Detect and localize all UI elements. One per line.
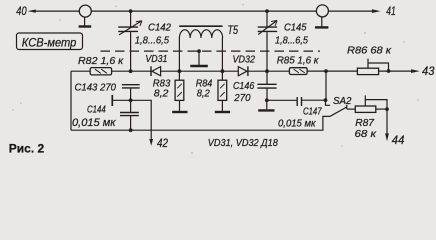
wire R84 bottom xyxy=(221,100,223,111)
shield dashed line xyxy=(101,50,321,52)
capacitor C142 (variable) xyxy=(118,21,142,35)
node 42 arrow xyxy=(149,139,153,146)
resistor R85 xyxy=(289,68,307,75)
svg-text:Рис. 2: Рис. 2 xyxy=(9,141,45,155)
diode VD31 xyxy=(151,66,161,76)
wire between T5 leads row xyxy=(179,70,222,72)
wire T5 right lead xyxy=(221,38,223,80)
svg-text:SA2: SA2 xyxy=(333,96,352,107)
potentiometer R86 xyxy=(357,59,388,75)
ground (R83) xyxy=(172,111,187,113)
contact bar (C144 tap) xyxy=(111,95,113,106)
junction C146/C147 xyxy=(265,98,269,102)
wire C146 node to C147 xyxy=(267,99,297,101)
ground (C146) xyxy=(266,100,268,109)
label box КСВ-метр xyxy=(17,33,83,50)
node 41 arrow xyxy=(372,9,381,13)
svg-text:44: 44 xyxy=(392,134,405,147)
wire junction to VD31 xyxy=(131,70,151,72)
wire VD31 to T5 left xyxy=(161,70,180,72)
wire C142 bottom xyxy=(130,31,132,71)
wire SA2 to R87 xyxy=(347,108,356,110)
svg-text:68 к: 68 к xyxy=(355,129,378,140)
wire C145 bottom xyxy=(266,31,268,84)
junction T5 left / R83 xyxy=(178,69,182,73)
wire C146 bottom xyxy=(266,88,268,100)
capacitor C143 xyxy=(122,85,140,88)
svg-text:42: 42 xyxy=(157,137,168,150)
junction C144 rail xyxy=(129,128,133,132)
wire left rail xyxy=(70,71,72,130)
capacitor C145 (variable) xyxy=(258,21,277,35)
svg-text:8,2: 8,2 xyxy=(197,89,210,100)
wire SA2 upper contact arm xyxy=(326,100,331,105)
node 43 arrow xyxy=(411,69,420,73)
capacitor C147 xyxy=(297,97,301,106)
resistor R83 xyxy=(175,80,184,100)
svg-text:C147: C147 xyxy=(303,107,322,118)
wire tap to 42 corner xyxy=(112,100,151,139)
svg-text:C143 270: C143 270 xyxy=(75,82,117,93)
ground (right connector) xyxy=(321,17,323,27)
svg-text:R87: R87 xyxy=(355,118,375,129)
wire C142 top xyxy=(130,11,132,27)
ground (shield) xyxy=(198,51,200,65)
junction top right xyxy=(265,9,269,13)
wire junction to R85 xyxy=(267,70,289,72)
wire R87 to arrow 44 xyxy=(386,109,388,135)
svg-text:T5: T5 xyxy=(228,24,239,37)
wire SA2 node link xyxy=(325,71,327,100)
connector right circle xyxy=(316,5,328,17)
wire R82 to junction xyxy=(112,70,131,72)
junction R86 wiper xyxy=(387,69,391,73)
svg-text:270: 270 xyxy=(233,93,250,104)
connector left circle xyxy=(79,5,91,17)
wire R86 to arrow 43 xyxy=(379,70,413,72)
svg-text:0,015 мк: 0,015 мк xyxy=(72,117,116,129)
svg-text:C144: C144 xyxy=(87,104,106,115)
svg-text:40: 40 xyxy=(16,5,27,18)
junction T5 right / R84 xyxy=(221,69,225,73)
ground (left connector) xyxy=(84,17,86,26)
junction R87 wiper xyxy=(385,107,389,111)
svg-text:41: 41 xyxy=(386,5,396,18)
wire bottom rail xyxy=(71,116,330,130)
svg-text:C146: C146 xyxy=(233,81,254,92)
junction C142/R82/VD31 xyxy=(129,69,133,73)
wire T5 right to VD32 xyxy=(222,70,238,72)
junction SA2 upper contact xyxy=(324,98,328,102)
svg-text:43: 43 xyxy=(422,65,435,78)
resistor R82 xyxy=(90,68,111,75)
svg-text:VD31, VD32 Д18: VD31, VD32 Д18 xyxy=(208,138,278,149)
capacitor C146 xyxy=(257,84,276,88)
switch SA2 contact tick xyxy=(346,105,348,109)
svg-text:R82 1,6 к: R82 1,6 к xyxy=(78,56,124,67)
svg-text:1,8...6,5: 1,8...6,5 xyxy=(275,36,308,47)
svg-text:VD31: VD31 xyxy=(145,54,167,65)
wire R82 left xyxy=(71,70,90,72)
svg-text:8,2: 8,2 xyxy=(154,89,169,100)
transformer T5 winding xyxy=(179,30,222,38)
svg-text:КСВ-метр: КСВ-метр xyxy=(22,36,77,50)
ground (R84) xyxy=(215,111,230,113)
wire C145 top xyxy=(266,11,268,27)
svg-text:VD32: VD32 xyxy=(233,55,256,66)
wire T5 left lead xyxy=(178,38,180,80)
wire C144 bottom xyxy=(130,116,132,131)
resistor R84 xyxy=(218,80,227,100)
wire R85 to node xyxy=(307,70,326,72)
wire main top line xyxy=(34,10,373,12)
junction shield tap xyxy=(197,49,201,53)
node 44 arrow xyxy=(385,133,389,141)
svg-text:R85 1,6 к: R85 1,6 к xyxy=(277,56,320,67)
transformer T5 core xyxy=(179,25,222,27)
capacitor C144 xyxy=(120,113,139,116)
svg-text:R86 68 к: R86 68 к xyxy=(347,46,392,57)
switch SA2 lever xyxy=(330,107,347,116)
wire R87 right xyxy=(376,108,387,110)
wire node to R86 xyxy=(326,70,357,72)
svg-text:0,015 мк: 0,015 мк xyxy=(278,119,316,130)
wire VD32 to C145 junction xyxy=(248,70,267,72)
diode VD32 xyxy=(238,66,248,76)
junction top left xyxy=(129,9,133,13)
wire R83 bottom xyxy=(179,100,181,111)
svg-text:C142: C142 xyxy=(148,22,171,33)
svg-text:C145: C145 xyxy=(284,22,307,33)
wire C147 to SA2 contact xyxy=(302,99,326,101)
potentiometer R87 xyxy=(355,95,387,112)
junction C143/C144 xyxy=(129,98,133,102)
node 40 arrow xyxy=(28,10,36,13)
wire C143 bottom xyxy=(130,88,132,112)
junction R85/R86/SA2 xyxy=(324,69,328,73)
junction C145/C146 xyxy=(265,69,269,73)
svg-text:1,8...6,5: 1,8...6,5 xyxy=(135,36,169,47)
